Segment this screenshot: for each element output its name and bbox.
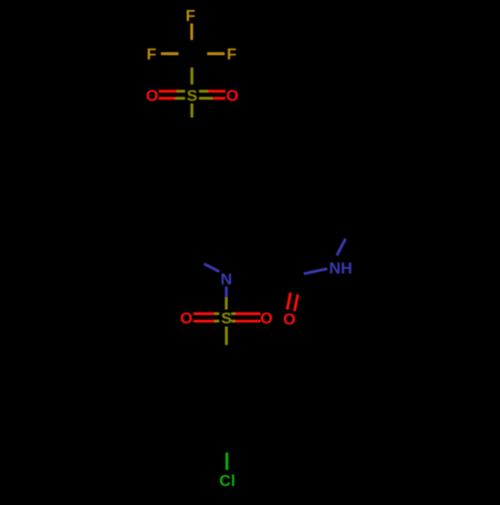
svg-text:O: O (146, 88, 158, 105)
svg-text:O: O (226, 88, 238, 105)
double bond S2=O3 line b (193, 320, 214, 323)
double bond S2=O4 line b (231, 320, 235, 323)
bond F1-C1 (gold half) (190, 24, 193, 41)
svg-text:NH: NH (329, 261, 352, 278)
svg-text:O: O (283, 312, 295, 329)
svg-text:F: F (186, 8, 196, 25)
bond N2-C(=O) blue half (left stub) (304, 269, 328, 274)
bond N1-S2 olive half (225, 298, 228, 310)
bond C(aryl)-Cl green half (225, 453, 228, 471)
bond S1-C2 (olive half toward ring) (190, 104, 193, 118)
bond F3-C1 (gold half) (207, 52, 225, 55)
svg-text:N: N (221, 271, 233, 288)
double bond S1=O2 line b (199, 97, 213, 100)
svg-text:S: S (221, 310, 232, 327)
bond CH2-N1 (blue half near ring nitrogen) (204, 264, 219, 272)
svg-text:F: F (227, 47, 237, 64)
double bond S1=O1 line b (159, 97, 176, 100)
double bond S2=O4 line a (231, 312, 235, 315)
double bond C=O5 line a (287, 293, 290, 310)
svg-text:Cl: Cl (219, 473, 235, 490)
svg-text:S: S (187, 88, 198, 105)
double bond C=O5 line b (295, 294, 298, 311)
svg-text:F: F (147, 47, 157, 64)
svg-text:O: O (180, 310, 192, 327)
bond N1-S2 blue half (225, 287, 228, 298)
bond S2-C(aryl) olive half (225, 327, 228, 346)
bond F2-C1 (gold half) (161, 52, 179, 55)
svg-text:O: O (260, 310, 272, 327)
bond C-N2 blue half (upper right stub) (337, 239, 346, 256)
double bond S1=O2 line a (199, 90, 208, 93)
bond C1-S1 (olive half near S) (190, 68, 193, 85)
double bond S2=O3 line a (193, 312, 214, 315)
double bond S1=O1 line a (159, 90, 177, 93)
